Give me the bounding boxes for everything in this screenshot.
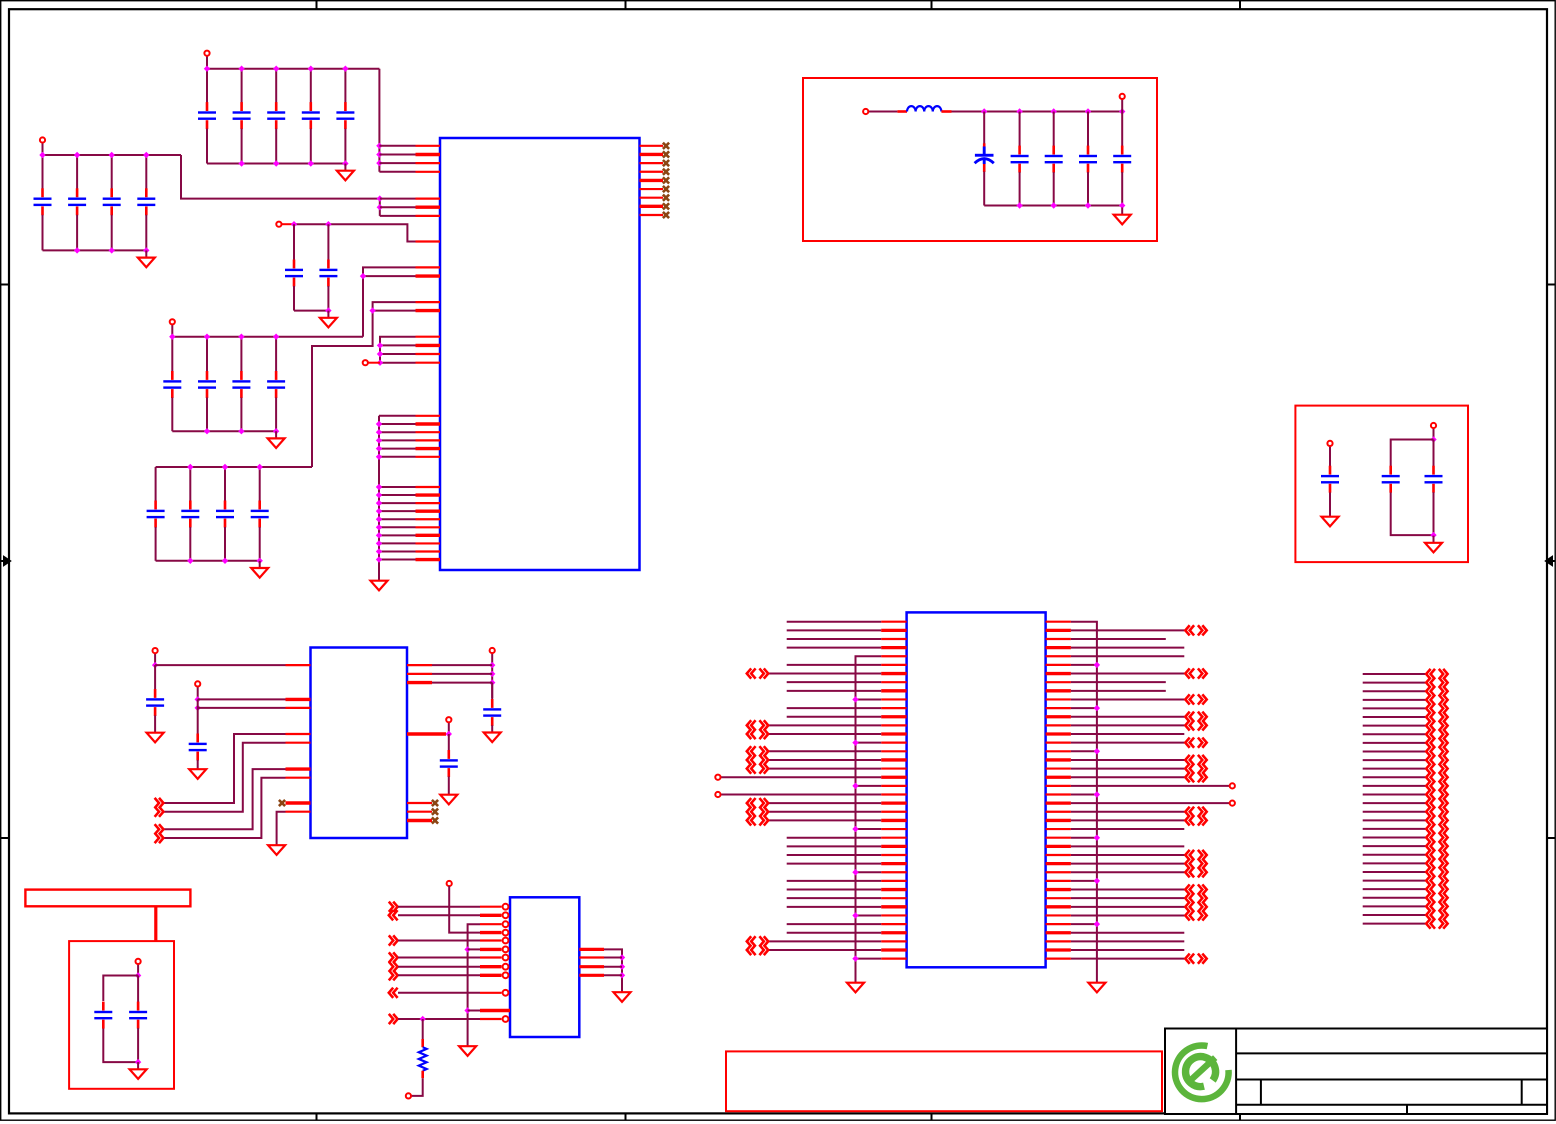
- wire U3 p4: [449, 886, 480, 933]
- node bank2 top x111.7: [109, 152, 115, 158]
- U4 left bus taps: [852, 696, 881, 962]
- wire bank3 bottom rail: [172, 430, 276, 432]
- logo EasyEDA: [1175, 1046, 1229, 1100]
- block outline power filter: [803, 78, 1157, 241]
- wire U4 Lterm18: [721, 776, 882, 778]
- wire C loop bottom: [103, 1029, 138, 1063]
- node U3 right y966.7: [619, 964, 625, 970]
- wire groupE top rail: [294, 224, 416, 241]
- capacitor C6: [34, 155, 52, 250]
- node quad a: [377, 342, 383, 348]
- no-connect U2 right 2: [432, 809, 438, 815]
- block outline right decoupling: [1295, 406, 1468, 562]
- port J1 21: [1426, 841, 1447, 851]
- ground bank1: [337, 164, 354, 181]
- IC U4 body: [907, 612, 1046, 967]
- wire bank2 top rail: [43, 154, 182, 156]
- wire groupE bottom rail: [294, 310, 328, 312]
- node H y665.1: [489, 662, 495, 668]
- node bank4 top x225: [222, 464, 228, 470]
- terminal P13 circle: [446, 717, 451, 722]
- port J1 9: [1426, 738, 1447, 748]
- node groupE top c2: [325, 221, 331, 227]
- port J1 28: [1426, 901, 1447, 911]
- port J1 3: [1426, 686, 1447, 696]
- node bank3 bottom x241.4: [238, 428, 244, 434]
- node U3 bus b: [464, 1007, 470, 1013]
- node bank2 top x42.5: [39, 152, 45, 158]
- node bank3 bottom x276.1: [273, 428, 279, 434]
- ground I: [440, 788, 457, 805]
- sheet border zone ticks top/bottom: [317, 1, 1241, 1121]
- ground U1: [371, 574, 388, 591]
- port U4 R12: [1185, 720, 1206, 730]
- ground C: [130, 1062, 147, 1079]
- ground blockA: [1114, 208, 1131, 225]
- node blockA top x1122.2: [1119, 108, 1125, 114]
- port U4 R32: [1185, 893, 1206, 903]
- node F: [152, 662, 158, 668]
- port J1 10: [1426, 746, 1447, 756]
- capacitor C31: [440, 734, 458, 777]
- U3 right pins: [579, 949, 604, 975]
- terminal P14: [448, 884, 450, 887]
- nodes U1 gnd bus: [376, 421, 382, 563]
- node bank2 top x146.3: [143, 152, 149, 158]
- ground U3 right: [614, 985, 631, 1002]
- block connector stem: [154, 906, 157, 942]
- terminal P9: [1433, 428, 1435, 439]
- port U4 L12: [747, 720, 768, 730]
- node I: [446, 731, 452, 737]
- inductor L1: [897, 106, 951, 111]
- port J1 4: [1426, 695, 1447, 705]
- wire U1 quad pin2: [380, 344, 416, 346]
- port U4 R9: [1185, 694, 1206, 704]
- node quad c: [377, 360, 383, 366]
- wire U3 rp3: [604, 966, 622, 968]
- U4 right port wires: [1071, 630, 1185, 958]
- capacitor C19: [251, 467, 269, 561]
- wire bank4 to U1: [312, 302, 416, 467]
- node U3 R1: [420, 1016, 426, 1022]
- U1 left pin wires upper: [379, 146, 415, 216]
- port U4 L23: [747, 815, 768, 825]
- block outline C: [69, 941, 174, 1089]
- node bank2 bottom x111.7: [109, 247, 115, 253]
- node U3 right y975.3: [619, 972, 625, 978]
- capacitor C29: [189, 734, 207, 761]
- node H y682.6: [489, 679, 495, 685]
- port J1 2: [1426, 678, 1447, 688]
- U2 right pins: [407, 665, 446, 820]
- wire U3 bus: [468, 924, 480, 1039]
- wire U3 p11: [468, 1010, 480, 1012]
- wire bank4 top rail: [156, 466, 312, 468]
- port U2 d: [155, 833, 164, 843]
- connector J1 wires: [1363, 674, 1426, 924]
- node quad b: [377, 351, 383, 357]
- port J1 17: [1426, 807, 1447, 817]
- wire H pin1: [432, 664, 492, 666]
- no-connect U2 right 3: [432, 817, 438, 823]
- port U2 a: [155, 798, 164, 808]
- terminal P7: [1121, 99, 1123, 112]
- U4 left pins: [881, 622, 906, 959]
- port U4 L37: [747, 936, 768, 946]
- capacitor C18: [216, 467, 234, 561]
- node U1 bus3: [360, 273, 366, 279]
- no-connect U2 left: [279, 800, 285, 806]
- IC U2 body: [311, 648, 408, 839]
- ground H: [484, 725, 501, 742]
- node U3 right y957.5: [619, 954, 625, 960]
- wire U3 p12: [398, 1018, 480, 1020]
- node bank4 top x190.3: [187, 464, 193, 470]
- no-connect U1 right 3: [663, 160, 669, 166]
- port J1 8: [1426, 729, 1447, 739]
- port U4 L17: [747, 763, 768, 773]
- wire bank2 to U1: [181, 155, 380, 199]
- node bank2 bottom x77.1: [74, 247, 80, 253]
- wire U4 Lterm20: [721, 794, 882, 796]
- node bank1 bottom last: [342, 160, 348, 166]
- port J1 5: [1426, 703, 1447, 713]
- node blockB bottom: [1430, 532, 1436, 538]
- node bank4 top x259.7: [257, 464, 263, 470]
- U2 left pins: [286, 665, 311, 812]
- port U4 R17: [1185, 763, 1206, 773]
- port U4 R6: [1185, 668, 1206, 678]
- capacitor C2: [233, 69, 251, 164]
- ground U4 left: [847, 976, 864, 993]
- port U4 L16: [747, 755, 768, 765]
- port U4 L22: [747, 807, 768, 817]
- node blockB top: [1430, 436, 1436, 442]
- port J1 20: [1426, 832, 1447, 842]
- port U4 L13: [747, 729, 768, 739]
- terminal P3 circle: [276, 222, 281, 227]
- terminal P11 circle: [195, 681, 200, 686]
- U1 left pin wires lower: [379, 416, 416, 560]
- no-connect U1 right 1: [663, 143, 669, 149]
- no-connect U1 right 8: [663, 203, 669, 209]
- node bank3 bottom x207: [204, 428, 210, 434]
- port U2 c: [155, 824, 164, 834]
- wire bank1 to U1: [378, 69, 380, 172]
- node U1 bus2 a: [377, 195, 383, 201]
- wire H pin3: [432, 682, 492, 684]
- terminal P1 circle: [204, 51, 209, 56]
- node bank3 top x207: [204, 334, 210, 340]
- terminal P1 VCC: [206, 56, 208, 69]
- node U1 left bus1 y154.5: [376, 151, 382, 157]
- no-connect U1 right 2: [663, 151, 669, 157]
- port U2 b: [155, 807, 164, 817]
- ground F: [147, 726, 164, 743]
- wire U3 p9: [398, 974, 480, 976]
- capacitor C17: [181, 467, 199, 561]
- terminal P10 circle: [153, 648, 158, 653]
- port U3 5: [389, 935, 398, 945]
- ground U3 bus: [459, 1039, 476, 1056]
- port J1 13: [1426, 772, 1447, 782]
- ground G: [189, 762, 206, 779]
- capacitor C25: [1321, 466, 1339, 493]
- terminal P13: [448, 722, 450, 734]
- node bank1 bottom x241.6: [238, 160, 244, 166]
- terminal P3: [282, 223, 295, 225]
- node G1: [195, 696, 201, 702]
- wire blockB loop bottom: [1391, 493, 1434, 536]
- no-connect U1 right 7: [663, 195, 669, 201]
- port J1 30: [1426, 919, 1447, 929]
- capacitor C26: [1382, 466, 1400, 493]
- port U3 12: [389, 1014, 398, 1024]
- capacitor C22: [1045, 112, 1063, 206]
- port U4 R34: [1185, 910, 1206, 920]
- port J1 25: [1426, 875, 1447, 885]
- ground bank4: [251, 561, 268, 578]
- wire U3 rp4: [604, 974, 622, 976]
- port J1 19: [1426, 824, 1447, 834]
- port J1 22: [1426, 850, 1447, 860]
- U1 left pins upper: [416, 146, 441, 363]
- capacitor C13: [198, 337, 216, 432]
- wire bank1 bottom rail: [207, 163, 345, 165]
- U3 left pins with bubbles: [480, 904, 510, 1022]
- terminal P2 circle: [40, 137, 45, 142]
- node blockA top x984.2: [981, 108, 987, 114]
- U1 right pins: [640, 146, 664, 215]
- no-connect U1 right 6: [663, 186, 669, 192]
- port J1 24: [1426, 867, 1447, 877]
- node bank4 bottom x190.3: [187, 558, 193, 564]
- terminal U4 R19: [1230, 783, 1235, 788]
- capacitor C21: [1011, 112, 1029, 206]
- terminal P4 circle: [170, 319, 175, 324]
- port U4 R39: [1185, 954, 1206, 964]
- wire U2 pin9 gnd: [277, 812, 286, 838]
- capacitor C12: [163, 337, 181, 432]
- wire bank1 top rail: [207, 68, 379, 70]
- port U4 L38: [747, 945, 768, 955]
- terminal P16 circle: [136, 959, 141, 964]
- wire U1 quad bus: [380, 337, 416, 363]
- port U4 R22: [1185, 807, 1206, 817]
- wire blockA bottom rail: [984, 205, 1122, 207]
- terminal P5 circle: [363, 360, 368, 365]
- capacitor C28: [146, 665, 164, 716]
- wire U2 pin5: [164, 743, 286, 812]
- port J1 27: [1426, 893, 1447, 903]
- wire U3 p7: [398, 957, 480, 959]
- wire F gnd stem: [154, 716, 156, 726]
- no-connect U1 right 4: [663, 169, 669, 175]
- node groupE bottom: [325, 307, 331, 313]
- wire U3 p2: [398, 914, 480, 916]
- port U4 R16: [1185, 755, 1206, 765]
- wire U4 left gnd bus: [856, 656, 882, 975]
- U4 right bus taps: [1071, 662, 1100, 928]
- node bank1 top x207: [204, 66, 210, 72]
- node G2: [195, 705, 201, 711]
- wire G stem: [197, 699, 199, 734]
- wire G pin2: [198, 707, 286, 709]
- capacitor C9: [137, 155, 155, 250]
- capacitor C23: [1079, 112, 1097, 206]
- capacitor C7: [68, 155, 86, 250]
- terminal P5: [368, 362, 380, 364]
- wire U2 pin6: [164, 769, 286, 829]
- wire U1 bus2: [379, 199, 381, 216]
- port U4 R31: [1185, 884, 1206, 894]
- wire U1 quad pin3: [380, 353, 416, 355]
- terminal P7 circle: [1120, 94, 1125, 99]
- capacitor C30: [483, 683, 501, 726]
- wire H pin2: [432, 673, 492, 675]
- node bank1 bottom x310.8: [308, 160, 314, 166]
- capacitor C16: [147, 467, 165, 561]
- port U3 2: [389, 910, 398, 920]
- port J1 14: [1426, 781, 1447, 791]
- sheet centering arrow right: [1546, 557, 1555, 565]
- ground bank2: [138, 250, 155, 267]
- terminal P4: [171, 325, 173, 337]
- terminal P15 circle: [406, 1093, 411, 1098]
- wire G gnd stem: [197, 760, 199, 762]
- terminal P11: [197, 687, 199, 700]
- node bank2 bottom x146.3: [143, 247, 149, 253]
- wire bank2 bottom rail: [43, 249, 147, 251]
- wire H bus: [491, 665, 493, 698]
- wire U3 p6: [468, 948, 480, 950]
- capacitor C15: [267, 337, 285, 432]
- node bank1 top x310.8: [308, 66, 314, 72]
- terminal P10: [154, 653, 156, 665]
- port U4 R14: [1185, 738, 1206, 748]
- terminal U4 L18: [715, 775, 720, 780]
- terminal P12 circle: [490, 648, 495, 653]
- no-connect U1 right 5: [663, 177, 669, 183]
- U1 left pins lower: [416, 416, 441, 560]
- port J1 16: [1426, 798, 1447, 808]
- wire U2 pin4: [164, 734, 286, 803]
- capacitor C3: [267, 69, 285, 164]
- port U3 9: [389, 970, 398, 980]
- capacitor C20 polarized: [975, 112, 994, 206]
- wire C loop top: [103, 976, 138, 1002]
- wire U1 pin row16: [363, 275, 416, 277]
- U4 right pins: [1046, 622, 1071, 959]
- node H y673.9: [489, 671, 495, 677]
- terminal P12: [491, 653, 493, 665]
- wire F to U2 pin: [155, 664, 285, 666]
- ground C25: [1322, 510, 1339, 527]
- wire U3 rp2: [604, 957, 622, 959]
- node groupE top c1: [291, 221, 297, 227]
- capacitor C8: [103, 155, 121, 250]
- node bank1 top x345.4: [342, 66, 348, 72]
- no-connect U2 right 1: [432, 800, 438, 806]
- capacitor C4: [302, 69, 320, 164]
- port U4 R27: [1185, 850, 1206, 860]
- block label bar: [25, 890, 190, 907]
- terminal P2: [42, 143, 44, 155]
- IC U3 body: [510, 897, 579, 1037]
- sheet centering arrow left: [1, 557, 10, 565]
- wire U4 Rterm21: [1071, 802, 1230, 804]
- terminal P6: [868, 111, 897, 113]
- port J1 1: [1426, 669, 1447, 679]
- port J1 18: [1426, 815, 1447, 825]
- node U1 left bus1 y145.8: [376, 143, 382, 149]
- node blockA bottom last: [1119, 202, 1125, 208]
- wire bank3 to U1: [363, 267, 416, 336]
- node U3 bus a: [464, 946, 470, 952]
- port U4 L6: [747, 668, 768, 678]
- no-connect U1 right 9: [663, 212, 669, 218]
- node U1 left bus1 y163.1: [376, 160, 382, 166]
- port U4 R23: [1185, 815, 1206, 825]
- title block table: [1165, 1029, 1547, 1115]
- port U3 7: [389, 952, 398, 962]
- U4 left port wires: [769, 674, 881, 950]
- port J1 6: [1426, 712, 1447, 722]
- port J1 23: [1426, 858, 1447, 868]
- capacitor C33: [129, 976, 147, 1063]
- terminal U4 L20: [715, 792, 720, 797]
- capacitor C11: [319, 224, 337, 310]
- capacitor C1: [198, 69, 216, 164]
- port U4 L15: [747, 746, 768, 756]
- terminal P9 circle: [1431, 423, 1436, 428]
- terminal P14 circle: [447, 881, 452, 886]
- ground U4 right: [1088, 976, 1105, 993]
- node bank1 top x276.2: [273, 66, 279, 72]
- node blockA bottom x1088: [1085, 202, 1091, 208]
- node blockA top x1088: [1085, 108, 1091, 114]
- node U1 bus2 b: [377, 204, 383, 210]
- U4 left plain wires: [787, 622, 882, 933]
- node C top: [135, 972, 141, 978]
- wire R1 to terminal: [411, 1078, 423, 1096]
- port J1 12: [1426, 764, 1447, 774]
- wire U3 right bus: [604, 949, 622, 985]
- sheet border zone ticks left/right: [1, 285, 1556, 839]
- port U3 1: [389, 902, 398, 912]
- ground blockB: [1425, 536, 1442, 553]
- terminal P6 circle: [863, 109, 868, 114]
- wire blockA top rail: [952, 111, 1123, 113]
- capacitor C32: [94, 1002, 112, 1029]
- node bank4 bottom x225: [222, 558, 228, 564]
- node blockA top x1019.6: [1016, 108, 1022, 114]
- ground groupE: [320, 311, 337, 328]
- terminal U4 R21: [1230, 801, 1235, 806]
- node bank3 top x172.3: [169, 334, 175, 340]
- node bank3 top x241.4: [238, 334, 244, 340]
- wire U1 pin row20: [373, 310, 416, 312]
- node blockA bottom x1053.7: [1051, 202, 1057, 208]
- wire blockB loop: [1391, 440, 1434, 467]
- ground U2 pin9: [268, 838, 285, 855]
- port J1 15: [1426, 789, 1447, 799]
- node bank1 bottom x276.2: [273, 160, 279, 166]
- node U1 bus4: [369, 307, 375, 313]
- port U4 R33: [1185, 902, 1206, 912]
- terminal P8 circle: [1327, 441, 1332, 446]
